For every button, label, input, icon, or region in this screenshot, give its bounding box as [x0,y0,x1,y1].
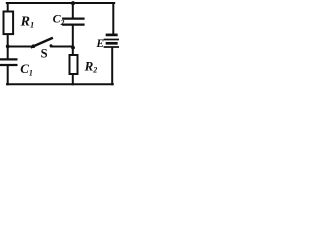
wire middle branch top [72,3,74,18]
node junction dot left (switch tee) [6,45,10,49]
node junction dot top border tee [71,1,75,5]
wire top border [7,2,114,4]
wire C2 to R2 [72,26,74,55]
wire right border bottom [111,48,113,84]
node switch contact dot [50,44,53,47]
node switch pivot dot [32,44,36,48]
wire switch left [8,46,34,48]
svg-text:S: S [41,46,48,60]
battery E [105,35,119,47]
wire switch right [51,46,73,48]
svg-text:E: E [95,38,104,50]
capacitor C2 [63,19,83,25]
wire bottom border [7,83,113,85]
wire R2 to bottom [72,75,74,85]
wire C1 to bottom [7,66,9,84]
switch S lever [32,38,52,47]
wire left top stub [7,3,9,11]
capacitor C1 [1,59,17,65]
resistor R2 [70,55,78,74]
node junction dot middle branch (switch tee) [71,46,75,50]
wire right border top [112,3,114,34]
wire R1 to C1 [7,35,9,59]
resistor R1 [4,12,14,35]
